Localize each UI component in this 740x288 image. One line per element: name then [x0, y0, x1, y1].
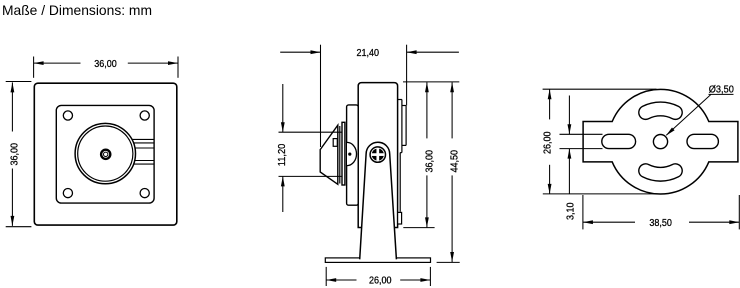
svg-text:26,00: 26,00	[542, 131, 554, 154]
svg-text:3,10: 3,10	[564, 202, 576, 220]
svg-text:26,00: 26,00	[369, 274, 392, 286]
svg-text:11,20: 11,20	[276, 144, 288, 167]
svg-text:36,00: 36,00	[424, 150, 436, 173]
svg-text:36,00: 36,00	[94, 58, 117, 70]
svg-text:38,50: 38,50	[649, 217, 672, 229]
svg-text:Maße / Dimensions: mm: Maße / Dimensions: mm	[2, 2, 152, 18]
svg-text:44,50: 44,50	[449, 150, 461, 173]
svg-text:21,40: 21,40	[357, 47, 380, 59]
svg-text:36,00: 36,00	[9, 143, 21, 166]
svg-text:Ø3,50: Ø3,50	[709, 84, 734, 96]
